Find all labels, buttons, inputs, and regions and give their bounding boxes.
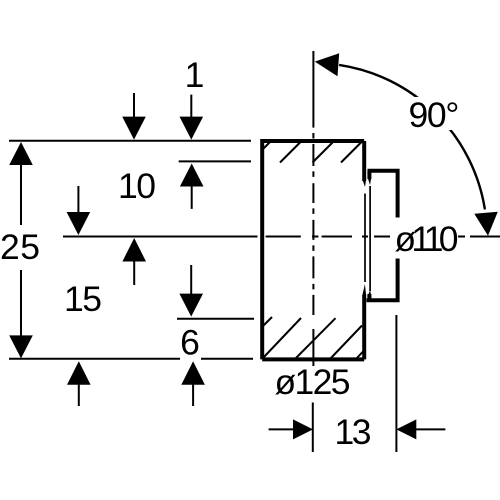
svg-text:25: 25 xyxy=(0,227,40,267)
svg-text:15: 15 xyxy=(64,279,102,319)
svg-text:ø125: ø125 xyxy=(275,362,351,402)
svg-text:10: 10 xyxy=(118,166,156,206)
svg-text:1: 1 xyxy=(185,55,205,95)
svg-text:90°: 90° xyxy=(409,95,460,135)
svg-text:ø110: ø110 xyxy=(395,219,459,259)
svg-text:6: 6 xyxy=(180,323,200,363)
svg-text:13: 13 xyxy=(335,412,372,452)
